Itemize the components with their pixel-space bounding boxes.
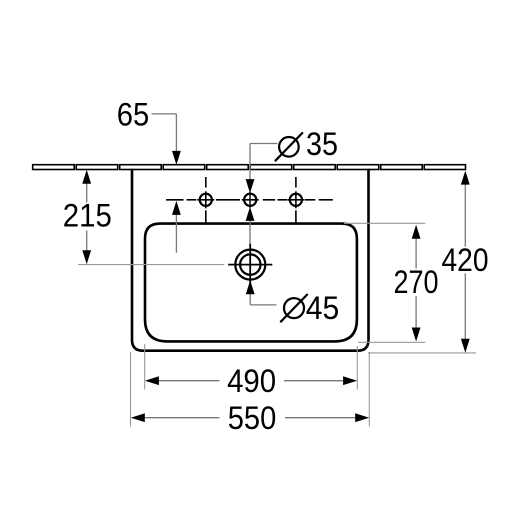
centre line through middle hole (249, 192, 251, 209)
arrow dia45 up (246, 280, 255, 294)
leader 65 (152, 113, 177, 115)
arrow 65 up (172, 201, 181, 215)
arrow 550 right (355, 413, 369, 422)
arrow 550 left (131, 413, 145, 422)
extension line 550 right (368, 352, 370, 427)
dia45 symbol (280, 294, 307, 322)
wall mounting rail (segmented) (33, 165, 466, 170)
leader dia35 (250, 143, 278, 145)
dim 270 (415, 232, 417, 269)
centre line to drain (249, 221, 251, 244)
svg-text:45: 45 (306, 290, 340, 326)
drain inner circle (240, 254, 260, 274)
arrow 270 down (412, 328, 421, 342)
svg-text:550: 550 (228, 400, 277, 436)
dim 490 (152, 380, 220, 382)
svg-text:35: 35 (306, 126, 338, 162)
extension line 270 bottom (358, 341, 425, 343)
centreline dashes through tap holes (166, 177, 333, 222)
arrow 270 up (412, 225, 421, 239)
arrow 490 right (343, 376, 357, 385)
arrow 420 up (461, 171, 470, 185)
arrow 65 down (172, 151, 181, 165)
dim 420 (464, 178, 466, 247)
dim 215 (86, 176, 88, 203)
tap hole left (200, 194, 212, 206)
drain outer circle (235, 250, 265, 280)
svg-text:490: 490 (227, 363, 276, 399)
extension line 490 right (356, 346, 358, 390)
extension line 270 top (344, 222, 425, 224)
leader dia45 (249, 294, 251, 305)
dia35 symbol (275, 132, 303, 161)
tap hole middle (244, 194, 256, 206)
drain crosshair (228, 264, 272, 266)
extension line 420 bottom (368, 352, 476, 354)
svg-text:65: 65 (117, 96, 150, 132)
arrow 490 left (145, 376, 159, 385)
tap hole right (290, 194, 302, 206)
arrow 420 down (461, 339, 470, 353)
basin inner rim (145, 224, 357, 342)
svg-text:420: 420 (442, 242, 489, 278)
arrow 215 down (82, 250, 91, 264)
svg-text:215: 215 (63, 198, 112, 234)
arrow dia35 down (246, 179, 255, 193)
svg-text:270: 270 (394, 264, 439, 300)
extension line 490 left (144, 344, 146, 390)
arrow 215 up (82, 170, 91, 184)
extension line 550 left (130, 352, 132, 427)
extension line 215 (to drain centre) (78, 264, 224, 266)
dim 550 (138, 417, 220, 419)
arrow dia35 up (246, 207, 255, 221)
basin outer outline (132, 169, 369, 351)
